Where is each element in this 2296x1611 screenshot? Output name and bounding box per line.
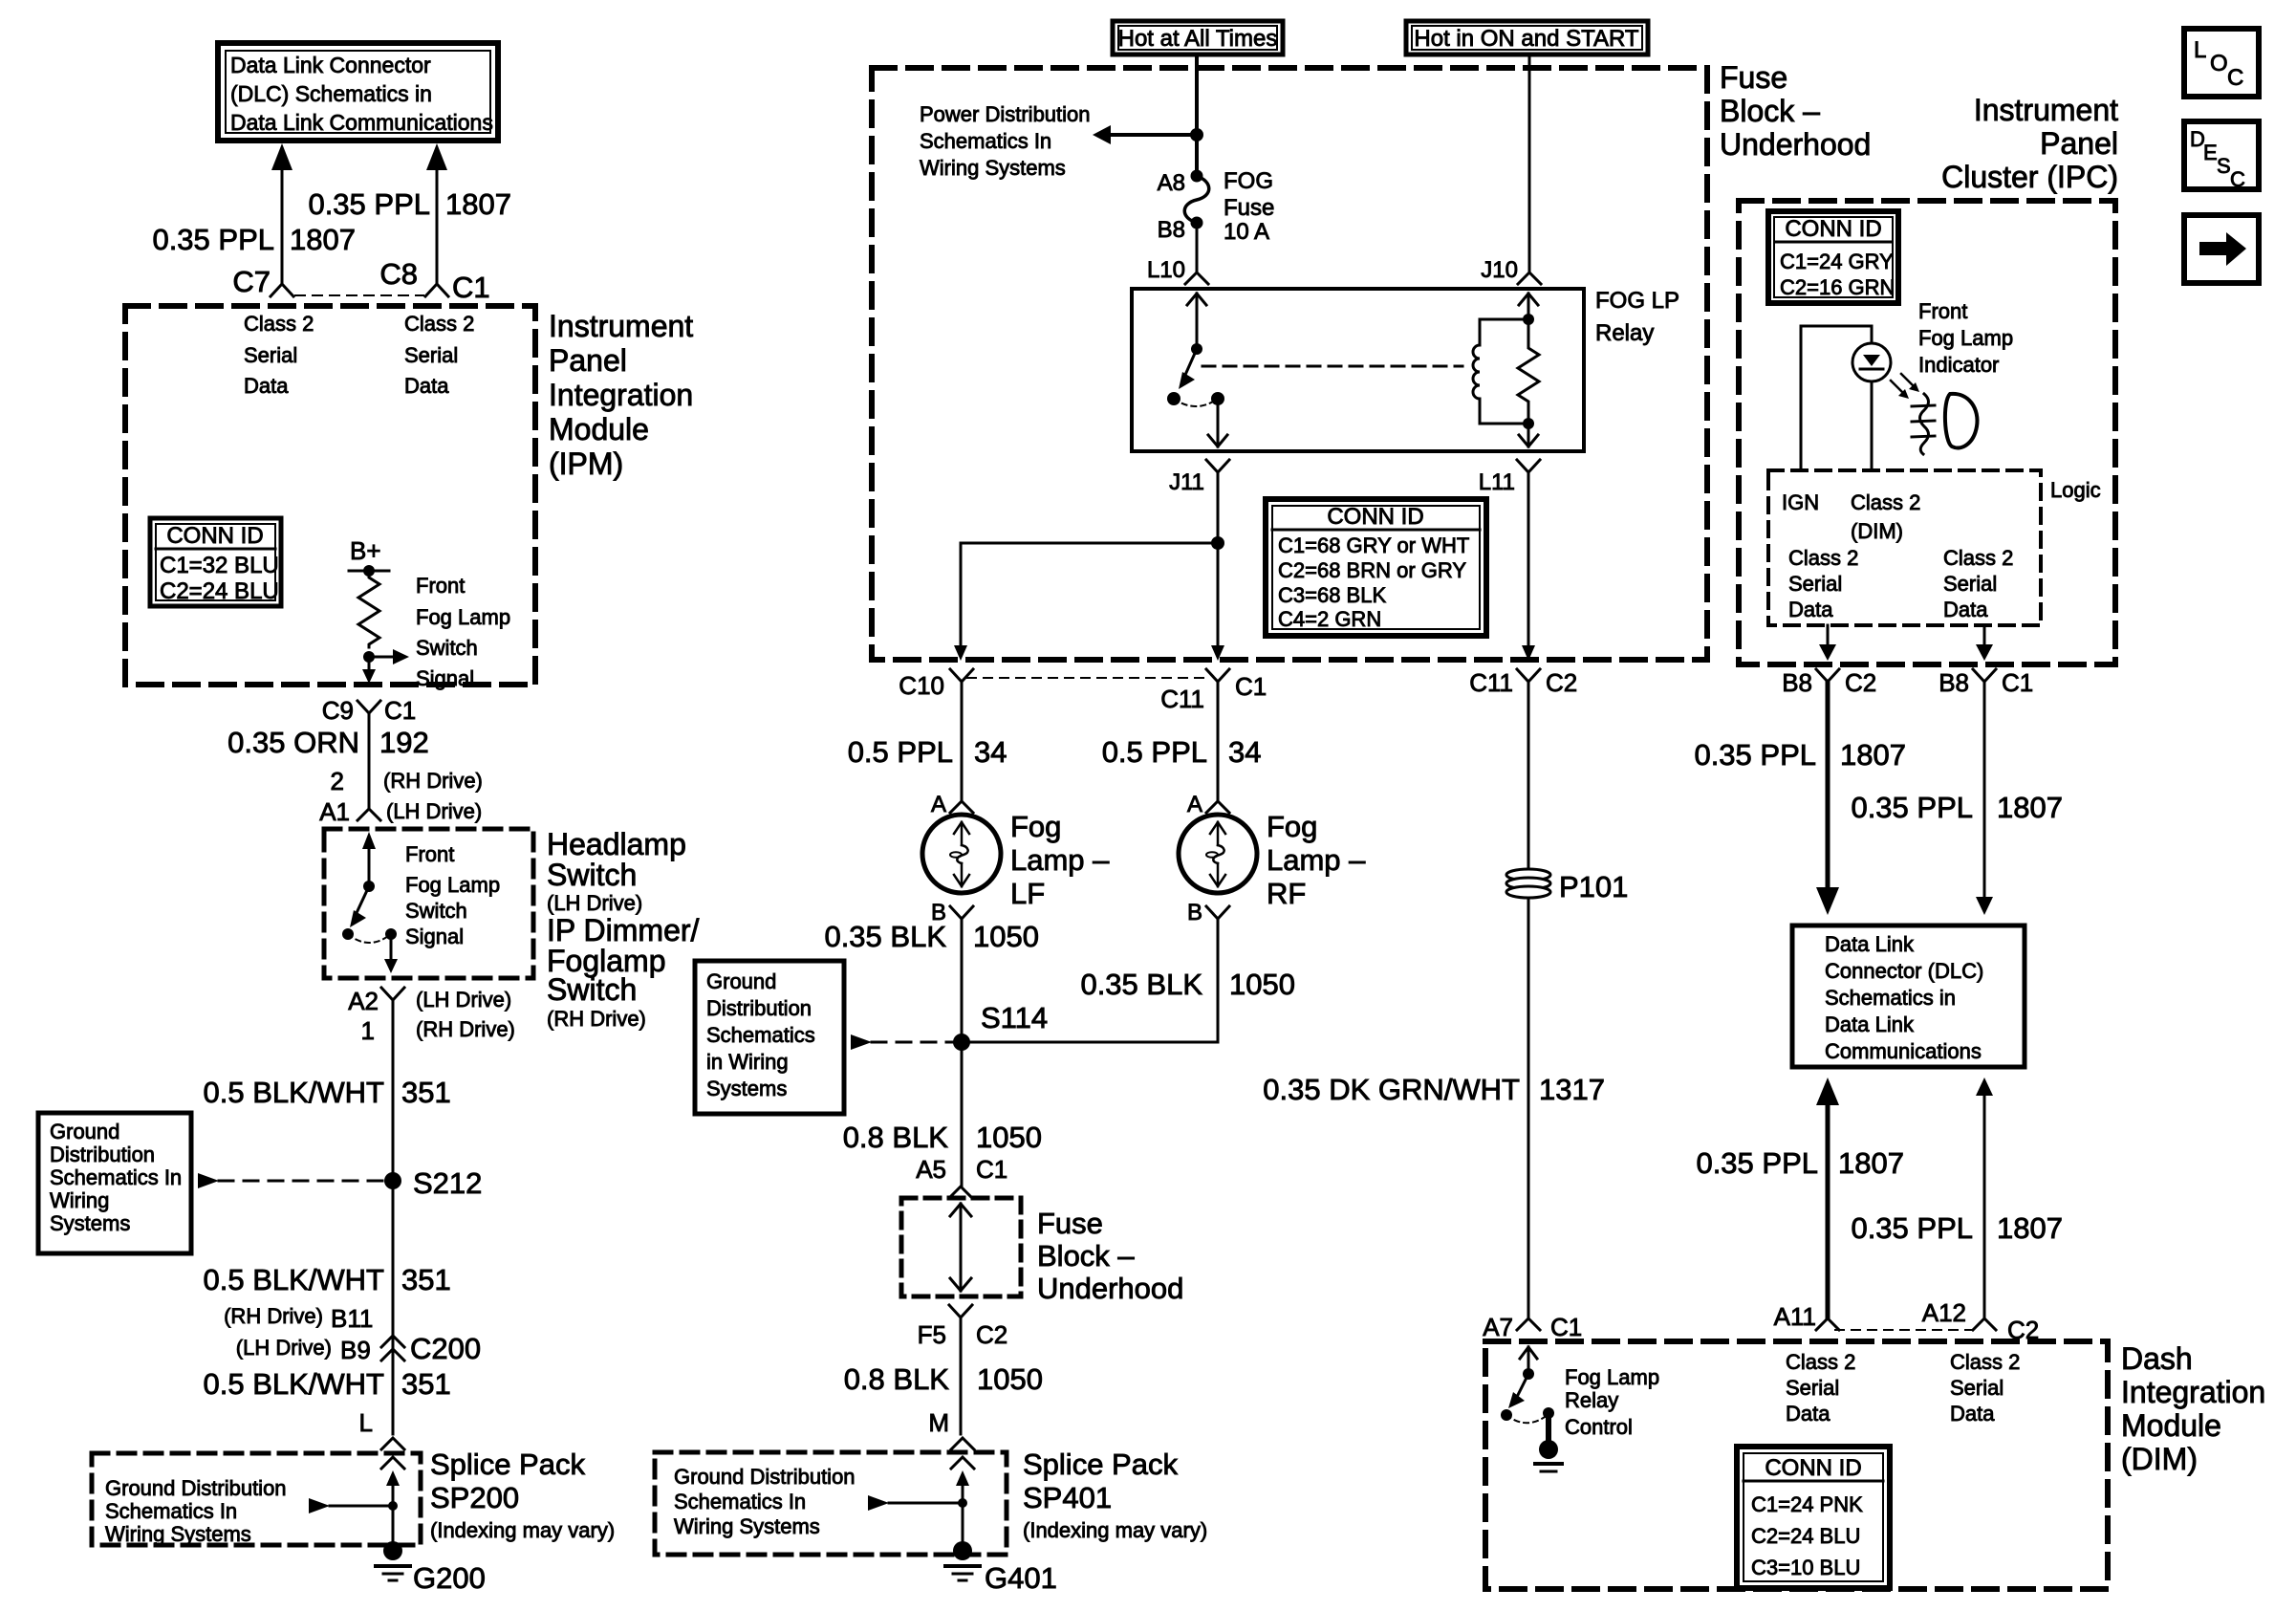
switch: fog lamp relay control (DIM) bbox=[1501, 1347, 1562, 1471]
wire: C1 to fog lamp RF bbox=[1217, 682, 1220, 801]
wire: through fuse block with arrows bbox=[950, 1204, 971, 1291]
svg-text:351: 351 bbox=[401, 1367, 451, 1401]
relay control dashed line bbox=[1202, 365, 1462, 368]
svg-text:Class 2: Class 2 bbox=[404, 312, 474, 336]
wire: J11 down with branch junction bbox=[1211, 472, 1224, 661]
svg-text:A5: A5 bbox=[916, 1155, 946, 1184]
connector C11/C2 (relay output) bbox=[1469, 668, 1577, 697]
label wire 0.5 BLK/WHT 351 (lower) bbox=[204, 1367, 451, 1401]
svg-text:1807: 1807 bbox=[1838, 1146, 1904, 1180]
svg-text:34: 34 bbox=[1228, 735, 1261, 769]
label: Front Fog Lamp Switch Signal (IPM) bbox=[416, 574, 510, 690]
svg-text:Data: Data bbox=[244, 374, 289, 398]
svg-text:Class 2: Class 2 bbox=[1786, 1350, 1855, 1374]
label: Instrument Panel Cluster (IPC) bbox=[1941, 93, 2118, 194]
svg-text:(RH Drive): (RH Drive) bbox=[383, 769, 483, 793]
svg-text:Relay: Relay bbox=[1565, 1388, 1618, 1412]
splice pack SP200 internals bbox=[309, 1457, 404, 1551]
svg-text:Control: Control bbox=[1565, 1415, 1633, 1439]
svg-text:Switch: Switch bbox=[547, 858, 637, 892]
svg-text:Serial: Serial bbox=[1950, 1376, 2004, 1400]
svg-text:0.35 BLK: 0.35 BLK bbox=[1080, 968, 1202, 1001]
module box: Dash Integration Module (DIM) bbox=[1485, 1341, 2108, 1589]
svg-text:Data: Data bbox=[1943, 598, 1988, 621]
svg-text:IGN: IGN bbox=[1782, 490, 1819, 514]
label wire 0.5 BLK/WHT 351 (upper) bbox=[204, 1076, 451, 1109]
svg-text:Wiring: Wiring bbox=[50, 1188, 109, 1212]
svg-text:C2: C2 bbox=[976, 1320, 1007, 1349]
pin A5 / C1 bbox=[916, 1155, 1007, 1184]
svg-text:SP200: SP200 bbox=[430, 1481, 519, 1514]
svg-text:0.5 PPL: 0.5 PPL bbox=[1102, 735, 1207, 769]
wire: A12 up to DLC bbox=[1976, 1078, 1993, 1317]
svg-text:0.35 PPL: 0.35 PPL bbox=[1694, 738, 1816, 772]
label: Headlamp Switch (LH Drive) IP Dimmer/Foglamp Switch (RH Drive) bbox=[547, 827, 700, 1031]
svg-text:G401: G401 bbox=[985, 1561, 1057, 1595]
svg-text:Data: Data bbox=[404, 374, 449, 398]
svg-text:C2=24 BLU: C2=24 BLU bbox=[1751, 1524, 1860, 1548]
svg-text:B+: B+ bbox=[350, 536, 381, 565]
svg-text:0.5 BLK/WHT: 0.5 BLK/WHT bbox=[204, 1263, 385, 1296]
wire: battery feed from Hot at All Times bbox=[1195, 54, 1199, 176]
label wire 0.35 PPL 1807 (A12) bbox=[1851, 1211, 2063, 1245]
label: Ground Distribution Schematics In Wiring Systems (SP401) bbox=[674, 1465, 856, 1538]
svg-text:Fuse: Fuse bbox=[1037, 1207, 1103, 1240]
svg-text:Schematics In: Schematics In bbox=[50, 1165, 182, 1189]
svg-text:S114: S114 bbox=[981, 1001, 1048, 1034]
svg-text:Data Link Communications: Data Link Communications bbox=[230, 110, 493, 135]
svg-text:2: 2 bbox=[331, 767, 344, 795]
svg-text:Data: Data bbox=[1788, 598, 1833, 621]
relay coil bbox=[1473, 314, 1534, 429]
svg-text:Splice Pack: Splice Pack bbox=[430, 1448, 585, 1481]
svg-text:CONN ID: CONN ID bbox=[166, 523, 263, 549]
connector at SP401 top bbox=[951, 1438, 974, 1449]
svg-text:C8: C8 bbox=[379, 257, 418, 291]
label wire 0.8 BLK 1050 (lower) bbox=[844, 1362, 1043, 1396]
LED light arrows bbox=[1891, 374, 1919, 399]
pin A (RF) bbox=[1187, 792, 1229, 817]
pin A2 (LH Drive) / 1 (RH Drive) bbox=[348, 987, 515, 1045]
svg-text:Front: Front bbox=[405, 842, 454, 866]
wire: fuse to relay bbox=[1196, 222, 1199, 272]
svg-text:Ground Distribution: Ground Distribution bbox=[674, 1465, 856, 1489]
pin L10 bbox=[1147, 257, 1208, 284]
svg-text:1807: 1807 bbox=[445, 187, 511, 221]
svg-text:S212: S212 bbox=[413, 1166, 482, 1200]
svg-text:C10: C10 bbox=[899, 671, 944, 700]
svg-text:(LH Drive): (LH Drive) bbox=[386, 799, 482, 823]
svg-text:B11: B11 bbox=[331, 1304, 373, 1333]
svg-text:Fog Lamp: Fog Lamp bbox=[416, 605, 510, 629]
svg-text:Class 2: Class 2 bbox=[1851, 490, 1920, 514]
wire: B8/C2 down to DLC (thick arrow) bbox=[1816, 682, 1839, 915]
ground G401 bbox=[945, 1541, 1057, 1595]
box: Ground Distribution Schematics in Wiring Systems (ref S114) bbox=[695, 961, 844, 1114]
label wire 0.5 PPL 34 (LF) bbox=[848, 735, 1007, 769]
label wire 0.35 PPL 1807 (B8/C2) bbox=[1694, 738, 1906, 772]
svg-text:Headlamp: Headlamp bbox=[547, 827, 686, 861]
svg-text:C200: C200 bbox=[410, 1332, 481, 1365]
label: Power Distribution Schematics In Wiring Systems bbox=[920, 102, 1091, 180]
connector C11/C1 (left fog lamp feed) bbox=[1160, 669, 1267, 713]
svg-text:Wiring Systems: Wiring Systems bbox=[105, 1522, 251, 1546]
svg-text:Ground: Ground bbox=[706, 969, 776, 993]
dashed link C7-C8 bbox=[295, 294, 423, 296]
wire: P101 down to A7 bbox=[1527, 898, 1530, 1317]
svg-text:Relay: Relay bbox=[1595, 320, 1654, 346]
nav box: DESC bbox=[2184, 121, 2259, 191]
svg-text:G200: G200 bbox=[413, 1561, 486, 1595]
label wire 0.35 DK GRN/WHT 1317 bbox=[1263, 1073, 1605, 1106]
svg-text:1807: 1807 bbox=[1840, 738, 1906, 772]
terminal B+ bbox=[349, 536, 389, 577]
svg-text:10 A: 10 A bbox=[1224, 219, 1269, 245]
svg-text:Module: Module bbox=[2121, 1408, 2221, 1443]
svg-text:1317: 1317 bbox=[1539, 1073, 1605, 1106]
svg-text:J10: J10 bbox=[1481, 257, 1518, 283]
svg-text:Module: Module bbox=[549, 412, 649, 446]
svg-text:A: A bbox=[931, 792, 946, 817]
pin B (RF) bbox=[1187, 900, 1229, 925]
svg-text:L11: L11 bbox=[1479, 469, 1515, 495]
svg-text:A1: A1 bbox=[319, 797, 350, 826]
svg-text:Panel: Panel bbox=[2040, 126, 2118, 161]
label: Fog Lamp Relay Control bbox=[1565, 1365, 1659, 1439]
svg-text:B8: B8 bbox=[1158, 217, 1185, 243]
svg-text:SP401: SP401 bbox=[1023, 1481, 1112, 1514]
svg-text:L: L bbox=[2194, 37, 2206, 63]
svg-text:Schematics In: Schematics In bbox=[674, 1490, 806, 1513]
svg-text:1807: 1807 bbox=[1997, 1211, 2063, 1245]
box: Fuse Block - Underhood (pass-through) bbox=[901, 1198, 1021, 1296]
svg-text:C: C bbox=[2227, 65, 2243, 91]
svg-text:C2: C2 bbox=[1845, 668, 1876, 697]
svg-text:1050: 1050 bbox=[1229, 968, 1295, 1001]
svg-text:Ground Distribution: Ground Distribution bbox=[105, 1476, 287, 1500]
svg-text:C1=32 BLU: C1=32 BLU bbox=[160, 553, 279, 578]
svg-text:Ground: Ground bbox=[50, 1120, 119, 1143]
svg-text:CONN ID: CONN ID bbox=[1327, 504, 1423, 530]
svg-text:Data: Data bbox=[1950, 1402, 1995, 1426]
label wire 0.5 BLK/WHT 351 (middle) bbox=[204, 1263, 451, 1296]
wire: logic to B8/C1 with arrow bbox=[1976, 625, 1993, 661]
svg-text:Instrument: Instrument bbox=[1974, 93, 2118, 127]
fuse FOG 10 A bbox=[1158, 168, 1275, 245]
wire: C10 to fog lamp LF bbox=[961, 682, 964, 801]
svg-text:Integration: Integration bbox=[549, 378, 693, 412]
svg-text:C9: C9 bbox=[322, 696, 354, 725]
svg-text:B8: B8 bbox=[1782, 668, 1812, 697]
svg-text:P101: P101 bbox=[1559, 870, 1628, 903]
svg-text:C2=16 GRN: C2=16 GRN bbox=[1780, 275, 1895, 299]
svg-text:Logic: Logic bbox=[2050, 478, 2101, 502]
svg-text:1: 1 bbox=[361, 1016, 375, 1045]
wire C7 to DLC box with up arrow bbox=[271, 143, 292, 283]
label: Fog Lamp - LF bbox=[1010, 810, 1110, 910]
connector B8/C1 (IPC bottom) bbox=[1939, 668, 2033, 697]
svg-text:Front: Front bbox=[1918, 299, 1967, 323]
svg-text:Switch: Switch bbox=[547, 972, 637, 1007]
svg-text:1807: 1807 bbox=[1997, 791, 2063, 824]
table: CONN ID (IPM) C1=32 BLU C2=24 BLU bbox=[150, 518, 281, 606]
wire: J10 feed from Hot in ON and START bbox=[1528, 54, 1531, 272]
label: Instrument Panel Integration Module (IPM) bbox=[549, 309, 693, 481]
svg-text:A2: A2 bbox=[348, 987, 379, 1015]
svg-text:CONN ID: CONN ID bbox=[1765, 1455, 1861, 1481]
pin 2 (RH Drive) bbox=[331, 767, 483, 795]
svg-text:(RH Drive): (RH Drive) bbox=[416, 1017, 515, 1041]
dashed link A11-A12 bbox=[1835, 1329, 1971, 1331]
svg-text:(DIM): (DIM) bbox=[1851, 519, 1903, 543]
module box: Fuse Block - Underhood bbox=[872, 68, 1707, 660]
wire: C2 down to P101 bbox=[1527, 682, 1530, 868]
svg-text:Dash: Dash bbox=[2121, 1341, 2193, 1376]
relay right wire arrows bbox=[1519, 294, 1538, 446]
logic pin text: Class 2 Serial Data (right) bbox=[1943, 546, 2013, 621]
wire: signal down with arrowhead at IPM edge bbox=[362, 657, 376, 684]
svg-text:Serial: Serial bbox=[1788, 572, 1842, 596]
svg-text:C1: C1 bbox=[1550, 1313, 1582, 1341]
label wire 0.8 BLK 1050 (upper) bbox=[843, 1121, 1042, 1154]
svg-text:Fuse: Fuse bbox=[1224, 195, 1274, 221]
svg-text:0.35 BLK: 0.35 BLK bbox=[824, 920, 946, 953]
wire: A11 up to DLC (thick arrow) bbox=[1816, 1078, 1839, 1317]
table: CONN ID (IPC) bbox=[1768, 211, 1898, 303]
svg-text:B: B bbox=[1187, 900, 1202, 925]
nav box: forward arrow bbox=[2184, 215, 2259, 283]
svg-text:0.35 PPL: 0.35 PPL bbox=[1696, 1146, 1818, 1180]
svg-text:Splice Pack: Splice Pack bbox=[1023, 1448, 1178, 1481]
svg-text:1050: 1050 bbox=[973, 920, 1039, 953]
svg-text:C2=68 BRN or GRY: C2=68 BRN or GRY bbox=[1278, 558, 1466, 582]
svg-text:Integration: Integration bbox=[2121, 1375, 2265, 1409]
svg-text:1807: 1807 bbox=[290, 223, 356, 256]
wire: B8/C1 down to DLC bbox=[1976, 682, 1993, 915]
svg-text:Schematics In: Schematics In bbox=[105, 1499, 237, 1523]
pin A1 (LH Drive) bbox=[319, 797, 482, 826]
label wire 0.35 PPL 1807 (B8/C1) bbox=[1851, 791, 2063, 824]
pin (RH Drive) B11 bbox=[224, 1304, 373, 1333]
svg-text:1050: 1050 bbox=[976, 1121, 1042, 1154]
wire: lamp RF down and left to S114 bbox=[962, 919, 1218, 1042]
svg-text:F5: F5 bbox=[918, 1320, 946, 1349]
svg-text:(IPM): (IPM) bbox=[549, 446, 623, 481]
connector at fuse block (A5/C1) bbox=[949, 1186, 972, 1198]
svg-text:C: C bbox=[2230, 167, 2245, 191]
svg-text:Connector (DLC): Connector (DLC) bbox=[1825, 959, 1983, 983]
svg-text:Signal: Signal bbox=[405, 925, 464, 948]
svg-text:Distribution: Distribution bbox=[706, 996, 812, 1020]
label: Front Fog Lamp Indicator bbox=[1918, 299, 2013, 377]
svg-text:(DLC) Schematics in: (DLC) Schematics in bbox=[230, 81, 432, 106]
wire: logic to B8/C2 with arrow bbox=[1819, 625, 1836, 661]
label: FOG LP Relay bbox=[1595, 288, 1679, 346]
svg-text:Data: Data bbox=[1786, 1402, 1830, 1426]
svg-text:0.35 PPL: 0.35 PPL bbox=[1851, 791, 1973, 824]
box: Splice Pack SP200 bbox=[92, 1453, 421, 1545]
pictogram: front fog lamp bbox=[1912, 394, 1977, 454]
svg-text:Serial: Serial bbox=[244, 343, 297, 367]
svg-text:192: 192 bbox=[379, 726, 429, 759]
table: CONN ID (DIM) bbox=[1737, 1447, 1890, 1588]
table: CONN ID (fuse block) bbox=[1266, 499, 1486, 636]
svg-text:C2: C2 bbox=[1546, 668, 1577, 697]
ground G200 bbox=[376, 1541, 486, 1595]
relay resistor bbox=[1518, 319, 1539, 424]
svg-text:Lamp –: Lamp – bbox=[1267, 843, 1366, 877]
svg-text:Signal: Signal bbox=[416, 666, 474, 690]
label wire 0.35 ORN 192 bbox=[227, 726, 429, 759]
svg-text:C1: C1 bbox=[452, 271, 490, 304]
svg-text:0.5 BLK/WHT: 0.5 BLK/WHT bbox=[204, 1076, 385, 1109]
svg-text:B8: B8 bbox=[1939, 668, 1969, 697]
splice pack SP401 internals bbox=[868, 1457, 974, 1551]
svg-text:Class 2: Class 2 bbox=[1950, 1350, 2020, 1374]
grommet P101 bbox=[1506, 869, 1628, 903]
svg-text:Wiring Systems: Wiring Systems bbox=[920, 156, 1066, 180]
svg-text:(RH Drive): (RH Drive) bbox=[547, 1007, 646, 1031]
label wire 0.35 PPL 1807 (A11) bbox=[1696, 1146, 1904, 1180]
svg-text:0.8 BLK: 0.8 BLK bbox=[843, 1121, 949, 1154]
svg-text:(RH Drive): (RH Drive) bbox=[224, 1304, 323, 1328]
wire: IGN branch bbox=[1801, 326, 1872, 470]
pin J11 bbox=[1169, 460, 1229, 495]
svg-text:(LH Drive): (LH Drive) bbox=[236, 1336, 332, 1360]
svg-text:C2=24 BLU: C2=24 BLU bbox=[160, 578, 279, 604]
wire: L11 down to fuse block edge bbox=[1522, 472, 1535, 661]
lamp: Fog Lamp - LF bbox=[922, 815, 1001, 893]
DIM pin text: Class 2 Serial Data (A11) bbox=[1786, 1350, 1855, 1426]
relay switch contacts bbox=[1167, 294, 1227, 446]
svg-text:34: 34 bbox=[974, 735, 1007, 769]
pin B (LF) bbox=[931, 900, 973, 925]
svg-text:C2: C2 bbox=[2007, 1316, 2039, 1344]
svg-text:C11: C11 bbox=[1160, 685, 1204, 713]
svg-text:Block –: Block – bbox=[1037, 1239, 1135, 1273]
svg-text:(Indexing may vary): (Indexing may vary) bbox=[430, 1518, 615, 1542]
svg-text:1050: 1050 bbox=[977, 1362, 1043, 1396]
arrow: switch signal to the right bbox=[369, 649, 409, 664]
svg-text:Indicator: Indicator bbox=[1918, 353, 1999, 377]
node: feed junction bbox=[1190, 128, 1203, 142]
svg-text:C1=68 GRY or WHT: C1=68 GRY or WHT bbox=[1278, 533, 1469, 557]
svg-text:Fog Lamp: Fog Lamp bbox=[1565, 1365, 1659, 1389]
svg-text:Cluster (IPC): Cluster (IPC) bbox=[1941, 160, 2118, 194]
connector C10 bbox=[899, 669, 973, 700]
svg-text:Front: Front bbox=[416, 574, 465, 598]
wire: F5 to splice pack SP401 bbox=[960, 1317, 963, 1434]
connector at splice pack top bbox=[381, 1438, 404, 1449]
splice S212 bbox=[384, 1166, 482, 1200]
svg-text:IP Dimmer/: IP Dimmer/ bbox=[547, 913, 700, 947]
wire: lamp LF to S114 bbox=[961, 919, 964, 1042]
svg-text:Block –: Block – bbox=[1720, 94, 1820, 128]
svg-text:C7: C7 bbox=[232, 265, 271, 298]
svg-text:O: O bbox=[2210, 51, 2228, 76]
connector C1 (half) bbox=[425, 284, 448, 296]
svg-text:Serial: Serial bbox=[1786, 1376, 1839, 1400]
IPM pin text: Class 2 Serial Data (C7) bbox=[244, 312, 314, 398]
svg-text:Wiring Systems: Wiring Systems bbox=[674, 1514, 820, 1538]
svg-text:Data Link: Data Link bbox=[1825, 932, 1915, 956]
arrow: power distribution ref bbox=[1093, 125, 1197, 144]
svg-text:0.35 PPL: 0.35 PPL bbox=[308, 187, 430, 221]
svg-text:Class 2: Class 2 bbox=[244, 312, 314, 336]
svg-text:0.35 ORN: 0.35 ORN bbox=[227, 726, 359, 759]
box: Ground Distribution Schematics In Wiring Systems (ref) bbox=[38, 1113, 191, 1253]
svg-text:C11: C11 bbox=[1469, 668, 1513, 697]
label wire 0.35 PPL 1807 (C8 wire) bbox=[308, 187, 511, 221]
svg-text:0.35 PPL: 0.35 PPL bbox=[152, 223, 274, 256]
svg-text:A7: A7 bbox=[1483, 1313, 1513, 1341]
svg-text:Systems: Systems bbox=[706, 1077, 787, 1100]
svg-text:0.5 BLK/WHT: 0.5 BLK/WHT bbox=[204, 1367, 385, 1401]
pin A12 / C2 bbox=[1922, 1298, 2040, 1344]
svg-text:Systems: Systems bbox=[50, 1211, 130, 1235]
svg-text:Switch: Switch bbox=[416, 636, 478, 660]
box: Hot at All Times bbox=[1113, 21, 1283, 54]
svg-text:Schematics: Schematics bbox=[706, 1023, 815, 1047]
pin A (LF) bbox=[931, 792, 973, 817]
module box: Instrument Panel Cluster (IPC) bbox=[1739, 201, 2115, 664]
svg-text:(LH Drive): (LH Drive) bbox=[416, 988, 511, 1012]
label: Splice Pack SP200 (Indexing may vary) bbox=[430, 1448, 615, 1542]
logic box (IPC) bbox=[1768, 470, 2041, 625]
svg-text:0.5 PPL: 0.5 PPL bbox=[848, 735, 953, 769]
svg-text:Fog Lamp: Fog Lamp bbox=[405, 873, 500, 897]
splice S114 bbox=[953, 1001, 1048, 1051]
svg-text:A8: A8 bbox=[1158, 170, 1185, 196]
svg-text:J11: J11 bbox=[1169, 469, 1204, 495]
label: Front Fog Lamp Switch Signal (switch box) bbox=[405, 842, 500, 948]
label wire 0.35 PPL 1807 (C7 wire) bbox=[152, 223, 356, 256]
wire: C9 to A1 bbox=[368, 713, 371, 808]
box: headlamp / foglamp switch bbox=[324, 829, 533, 978]
svg-text:C3=10 BLU: C3=10 BLU bbox=[1751, 1556, 1860, 1579]
svg-text:Distribution: Distribution bbox=[50, 1143, 155, 1166]
box: Hot in ON and START bbox=[1406, 21, 1648, 54]
svg-text:Instrument: Instrument bbox=[549, 309, 693, 343]
svg-text:Underhood: Underhood bbox=[1037, 1272, 1183, 1305]
connector C7 (half) bbox=[271, 284, 293, 296]
svg-text:(Indexing may vary): (Indexing may vary) bbox=[1023, 1518, 1207, 1542]
svg-text:C3=68 BLK: C3=68 BLK bbox=[1278, 583, 1386, 607]
svg-text:L10: L10 bbox=[1147, 257, 1185, 283]
svg-text:Data Link Connector: Data Link Connector bbox=[230, 53, 431, 77]
svg-text:CONN ID: CONN ID bbox=[1785, 216, 1881, 242]
svg-text:FOG: FOG bbox=[1224, 168, 1273, 194]
svg-text:(DIM): (DIM) bbox=[2121, 1442, 2198, 1476]
svg-text:S: S bbox=[2217, 154, 2231, 178]
label wire 0.35 BLK 1050 (LF) bbox=[824, 920, 1039, 953]
svg-text:C1: C1 bbox=[384, 696, 416, 725]
svg-text:Power Distribution: Power Distribution bbox=[920, 102, 1091, 126]
svg-text:Schematics in: Schematics in bbox=[1825, 986, 1956, 1010]
dashed ref line with arrow to S212 bbox=[198, 1173, 384, 1188]
wire: A2 down to splice pack SP200 bbox=[392, 1000, 395, 1434]
connector C200 (LH Drive) B9 bbox=[236, 1332, 481, 1365]
pin A7 / C1 bbox=[1483, 1313, 1582, 1341]
pin J10 bbox=[1481, 257, 1541, 284]
box: Splice Pack SP401 bbox=[655, 1452, 1007, 1555]
label: Fuse Block - Underhood (small) bbox=[1037, 1207, 1183, 1305]
switch: front fog lamp switch bbox=[342, 832, 398, 973]
svg-text:C4=2 GRN: C4=2 GRN bbox=[1278, 607, 1381, 631]
svg-text:C1: C1 bbox=[2002, 668, 2033, 697]
lamp: Fog Lamp - RF bbox=[1179, 815, 1257, 893]
dashed link C10-C11 bbox=[967, 677, 1206, 679]
